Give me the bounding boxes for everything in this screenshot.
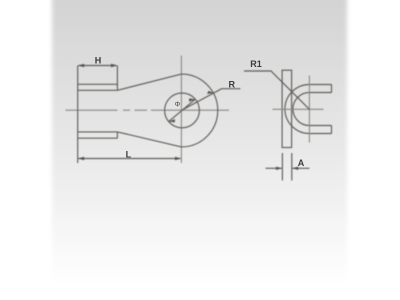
leader R from hole center to eye arc [182, 89, 241, 111]
labels [95, 56, 305, 168]
svg-text:R: R [229, 80, 236, 90]
eye outer arc R [181, 74, 217, 147]
vertical center line [180, 56, 182, 164]
svg-text:Φ: Φ [175, 101, 181, 108]
horizontal center line (dash-dot) [66, 109, 230, 111]
right end caps of strip [331, 85, 333, 134]
plate (eye seen edge-on) [282, 70, 292, 147]
dimension phi diameter line across hole [169, 98, 196, 122]
top taper line to eye [117, 74, 181, 90]
leader R1 to bend radius [244, 71, 309, 109]
vertical center line of bend [308, 76, 310, 143]
hole circle [165, 93, 200, 128]
dimension L [78, 157, 182, 160]
part left edge + H/L extension line [77, 66, 79, 164]
bottom taper line to eye [117, 132, 181, 147]
svg-text:L: L [126, 149, 132, 159]
bottom prong of fork [78, 132, 118, 139]
svg-text:H: H [95, 56, 102, 66]
dimension H [78, 64, 118, 67]
gray card background [52, 0, 347, 288]
horizontal center line of bend [273, 108, 324, 110]
dimension A [266, 153, 310, 181]
U-bent strip: outer contour [285, 85, 332, 134]
top prong of fork [78, 66, 118, 91]
U-bent strip: inner contour [293, 93, 332, 126]
svg-text:A: A [298, 158, 305, 168]
svg-text:R1: R1 [250, 59, 262, 69]
